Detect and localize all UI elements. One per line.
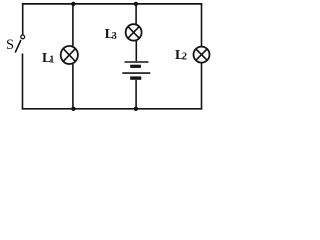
wire right upper [201,3,203,46]
node junction top of L1 branch [71,2,75,6]
wire L1 branch upper [72,4,74,47]
label L3 [105,27,117,42]
lamp L1 [61,46,78,64]
wire top bus [22,3,202,5]
wire left upper (to switch) [22,3,24,35]
label L1 [42,51,54,66]
lamp L3 [126,24,142,40]
svg-text:S: S [6,37,14,53]
wire left lower (switch to bottom) [22,54,24,110]
wire battery to bottom [135,80,137,109]
svg-text:3: 3 [112,31,117,42]
wire L1 branch lower [72,64,74,109]
wire right lower [201,63,203,110]
battery (two cells) [122,62,150,78]
node junction bottom of battery branch [134,107,138,111]
wire battery branch upper (to L3) [135,4,137,24]
switch S [15,35,24,53]
node junction top of battery branch [134,2,138,6]
node junction bottom of L1 branch [71,107,75,111]
svg-text:1: 1 [49,54,54,65]
svg-text:2: 2 [182,52,187,63]
wire bottom bus [22,108,202,110]
lamp L2 [194,47,210,63]
wire L3 to battery [135,40,137,61]
label L2 [175,48,187,63]
